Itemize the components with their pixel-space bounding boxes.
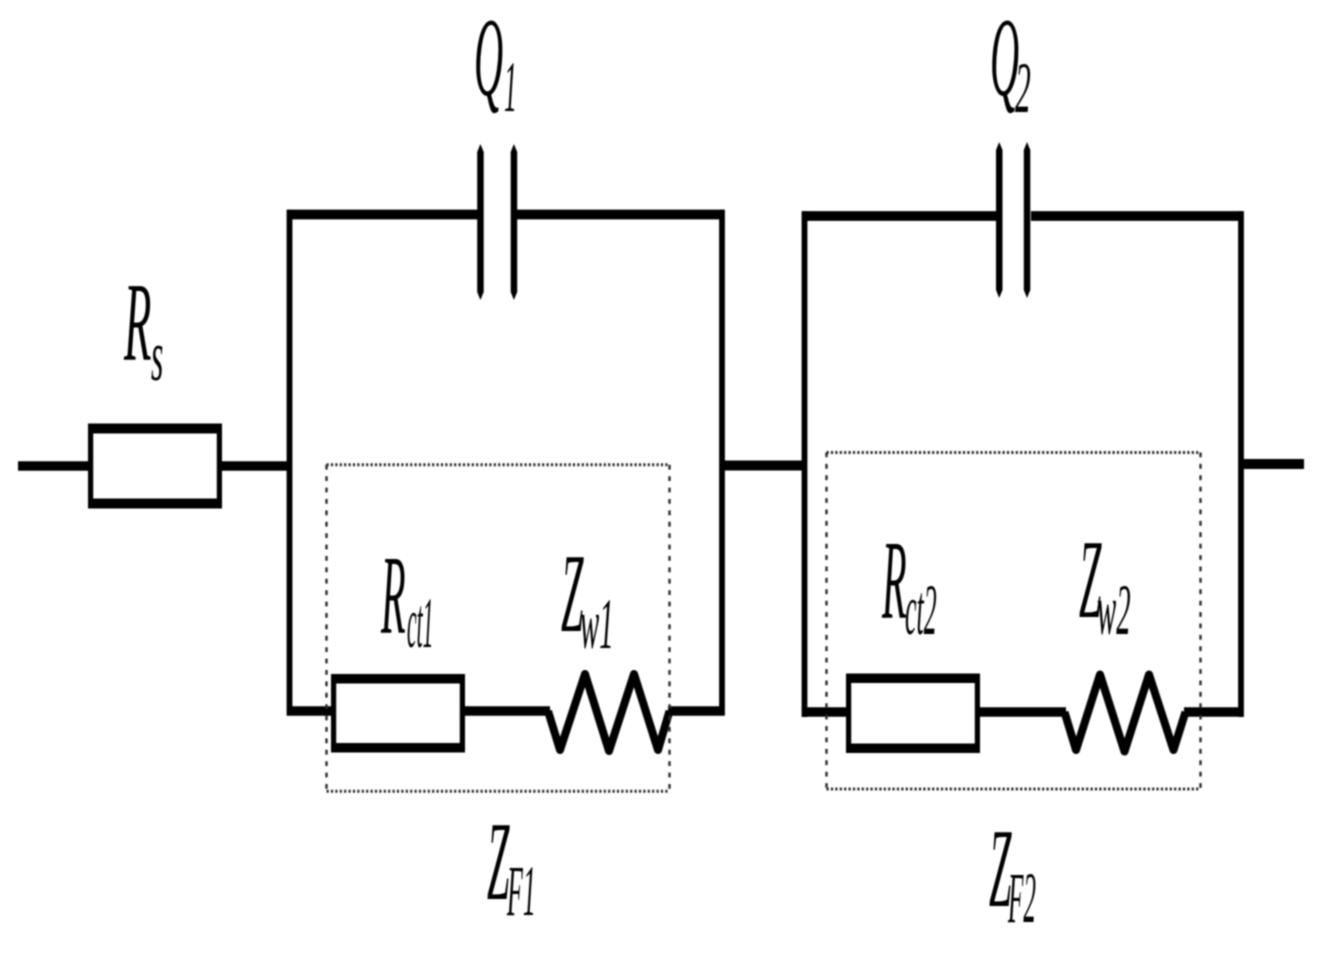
- svg-text:R: R: [123, 262, 151, 385]
- svg-text:Q: Q: [474, 0, 503, 120]
- svg-text:R: R: [381, 535, 406, 659]
- svg-text:ct1: ct1: [407, 585, 433, 664]
- svg-text:F1: F1: [507, 851, 536, 931]
- svg-text:s: s: [151, 317, 163, 397]
- svg-text:Z: Z: [487, 801, 510, 925]
- svg-text:2: 2: [1015, 49, 1031, 129]
- svg-text:ct2: ct2: [905, 570, 937, 650]
- svg-text:w2: w2: [1097, 570, 1131, 650]
- svg-text:1: 1: [504, 47, 517, 127]
- svg-text:F2: F2: [1008, 858, 1036, 938]
- svg-text:w1: w1: [580, 584, 614, 664]
- svg-text:R: R: [882, 520, 907, 644]
